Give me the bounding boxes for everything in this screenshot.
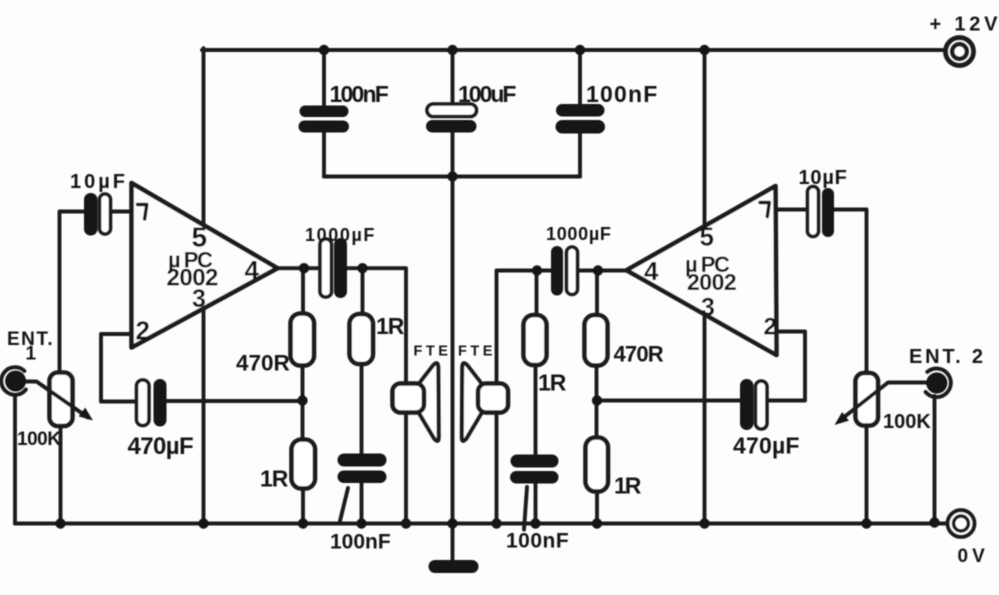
capacitor C9 100nF right decoupling bbox=[556, 104, 605, 117]
resistor R3 1R left zobel bbox=[350, 314, 374, 364]
wire U2 pin 2 loop to 470uF bbox=[767, 332, 805, 401]
svg-text:100nF: 100nF bbox=[506, 530, 569, 553]
node top rail / U2 supply junction bbox=[699, 45, 709, 55]
input jack ENT.2 bbox=[926, 372, 947, 393]
potentiometer P2 wiper arrow bbox=[841, 383, 926, 420]
capacitor C6 1000uF right bbox=[551, 246, 563, 296]
svg-text:470R: 470R bbox=[236, 351, 290, 376]
label U2 pin 1 bbox=[760, 203, 769, 217]
svg-text:ENT. 2: ENT. 2 bbox=[909, 346, 986, 368]
wire left 470R/1R chain bbox=[301, 268, 305, 523]
capacitor C1 10uF left (electrolytic) bbox=[84, 193, 98, 236]
svg-text:1R: 1R bbox=[538, 370, 567, 396]
speaker FTE right bbox=[462, 363, 483, 441]
svg-text:3: 3 bbox=[192, 285, 206, 313]
capacitor C4 470uF right bbox=[740, 379, 754, 430]
node bottom rail / left zobel junction bbox=[356, 518, 366, 528]
svg-text:100nF: 100nF bbox=[330, 531, 391, 554]
wire U1 pin 2 loop to 470uF bbox=[101, 334, 137, 402]
potentiometer P1 wiper arrow bbox=[25, 382, 88, 418]
terminal 0V bbox=[948, 510, 975, 537]
wire leader line right 100nF label bbox=[524, 487, 527, 530]
resistor R4 1R right zobel bbox=[524, 315, 547, 365]
svg-text:1000µF: 1000µF bbox=[305, 225, 376, 245]
wire right speaker to rail bbox=[495, 413, 499, 524]
node bottom rail / left 1R junction bbox=[298, 518, 308, 528]
node top rail / left 100nF junction bbox=[319, 45, 329, 55]
svg-text:1000µF: 1000µF bbox=[546, 224, 612, 244]
node U1 output / 1R zobel junction bbox=[357, 263, 367, 273]
capacitor C11 100nF right zobel bbox=[511, 455, 559, 468]
svg-text:FTE: FTE bbox=[458, 344, 496, 360]
input jack ENT.1 bbox=[5, 371, 26, 392]
wire U2 output to 1000uF bbox=[578, 269, 627, 273]
wire ENT.2 jack shell to rail bbox=[933, 396, 937, 524]
resistor R1 470R left bbox=[291, 314, 315, 366]
svg-text:470µF: 470µF bbox=[128, 433, 194, 460]
wire left IC pin5/pin3 vertical (Vcc to GND through U1) bbox=[202, 48, 206, 523]
ground bbox=[429, 560, 479, 573]
wire center ground line (100uF to ground bar) bbox=[451, 50, 455, 560]
node bottom rail / ground junction bbox=[447, 518, 457, 528]
svg-text:1R: 1R bbox=[376, 313, 405, 339]
resistor R5 470R right bbox=[585, 315, 608, 366]
capacitor C8 100uF center (electrolytic) bbox=[427, 104, 477, 117]
node left feedback junction bbox=[297, 395, 307, 405]
svg-text:1R: 1R bbox=[260, 466, 289, 492]
node U2 output / 470R junction bbox=[593, 265, 603, 275]
capacitor C3 470uF left bbox=[137, 380, 150, 426]
node bottom rail / right zobel junction bbox=[530, 518, 540, 528]
wire pot P1 bottom to rail bbox=[59, 426, 63, 524]
svg-text:470µF: 470µF bbox=[733, 433, 800, 459]
resistor R2 1R left lower bbox=[292, 440, 316, 489]
svg-text:3: 3 bbox=[701, 294, 715, 322]
svg-text:+ 12V: + 12V bbox=[930, 14, 999, 36]
wire pot P2 bottom to rail bbox=[865, 426, 869, 524]
node bottom rail / ENT.2 shell junction bbox=[929, 517, 939, 527]
wire U2 pin 1 to 10uF and pot P2 bbox=[777, 210, 867, 374]
node U2 output / 1R zobel junction bbox=[532, 265, 542, 275]
node bottom rail / U1 ground junction bbox=[198, 518, 208, 528]
svg-text:100nF: 100nF bbox=[586, 81, 658, 107]
wire 1000uF to left speaker bbox=[347, 268, 407, 383]
potentiometer P1 100K body bbox=[50, 373, 73, 427]
wire C1 to U1 pin 1 bbox=[111, 210, 132, 214]
node bottom rail / right 1R junction bbox=[592, 518, 602, 528]
svg-text:100K: 100K bbox=[883, 411, 931, 433]
wire left zobel 1R/100nF chain bbox=[362, 268, 363, 523]
wire bottom 0V rail bbox=[15, 522, 948, 526]
node bottom rail / left speaker junction bbox=[401, 518, 411, 528]
svg-text:4: 4 bbox=[644, 256, 659, 286]
capacitor C2 10uF right (electrolytic) bbox=[808, 187, 819, 237]
wire right 470R/1R chain bbox=[595, 271, 599, 524]
op-amp U2 uPC2002 bbox=[627, 186, 777, 355]
node decoupling tie junction bbox=[447, 171, 457, 181]
svg-text:100K: 100K bbox=[17, 429, 61, 450]
svg-text:100nF: 100nF bbox=[330, 81, 389, 107]
wire right 100nF legs bbox=[578, 50, 582, 177]
svg-text:10µF: 10µF bbox=[70, 171, 128, 193]
wire feedback right 470R junction to 470uF bbox=[597, 399, 740, 403]
potentiometer P2 100K body bbox=[856, 373, 879, 426]
svg-text:5: 5 bbox=[700, 222, 714, 252]
wire right 1000uF to right speaker bbox=[497, 271, 552, 384]
wire right IC pin5/pin3 vertical (Vcc to GND through U2) bbox=[703, 48, 707, 523]
node bottom rail / U2 ground junction bbox=[699, 518, 709, 528]
svg-text:1: 1 bbox=[26, 344, 37, 365]
svg-text:FTE: FTE bbox=[414, 344, 452, 360]
node right feedback junction bbox=[592, 395, 602, 405]
node bottom rail / P1 junction bbox=[55, 518, 65, 528]
node top rail / right 100nF junction bbox=[575, 45, 585, 55]
resistor R6 1R right lower bbox=[586, 438, 609, 492]
wire U1 output to 1000uF bbox=[278, 266, 321, 270]
wire right zobel 1R/100nF chain bbox=[536, 271, 537, 524]
op-amp U1 uPC2002 bbox=[132, 183, 278, 348]
label U1 pin 1 bbox=[138, 205, 147, 220]
wire feedback 470uF to 470R junction bbox=[167, 399, 303, 403]
svg-text:100uF: 100uF bbox=[458, 81, 516, 107]
svg-text:10µF: 10µF bbox=[799, 167, 848, 189]
node bottom rail / right speaker junction bbox=[491, 518, 501, 528]
svg-text:1R: 1R bbox=[614, 473, 642, 499]
wire leader line left 100nF label bbox=[340, 488, 348, 521]
capacitor C5 1000uF left bbox=[320, 239, 332, 297]
node bottom rail / P2 junction bbox=[861, 518, 871, 528]
wire 10uF C1 to pot P1 top bbox=[60, 212, 85, 373]
svg-text:2002: 2002 bbox=[687, 269, 736, 295]
svg-text:2: 2 bbox=[764, 314, 777, 341]
wire +12V top rail bbox=[202, 48, 944, 52]
capacitor C7 100nF left decoupling bbox=[300, 106, 349, 118]
svg-text:0V: 0V bbox=[958, 546, 989, 567]
node U1 output / 470R junction bbox=[299, 263, 309, 273]
terminal +12V bbox=[946, 38, 974, 66]
node top rail / 100uF junction bbox=[447, 45, 457, 55]
svg-text:4: 4 bbox=[245, 255, 260, 285]
wire ENT.1 jack shell to 0V rail bbox=[13, 396, 17, 524]
capacitor C10 100nF left zobel bbox=[338, 454, 387, 467]
wire left 100nF legs bbox=[322, 50, 326, 177]
wire decoupling caps bottom tie bbox=[324, 175, 580, 179]
svg-text:2: 2 bbox=[136, 316, 150, 346]
speaker FTE left bbox=[418, 363, 439, 441]
wire left speaker to rail bbox=[404, 413, 408, 524]
svg-text:470R: 470R bbox=[614, 342, 664, 367]
